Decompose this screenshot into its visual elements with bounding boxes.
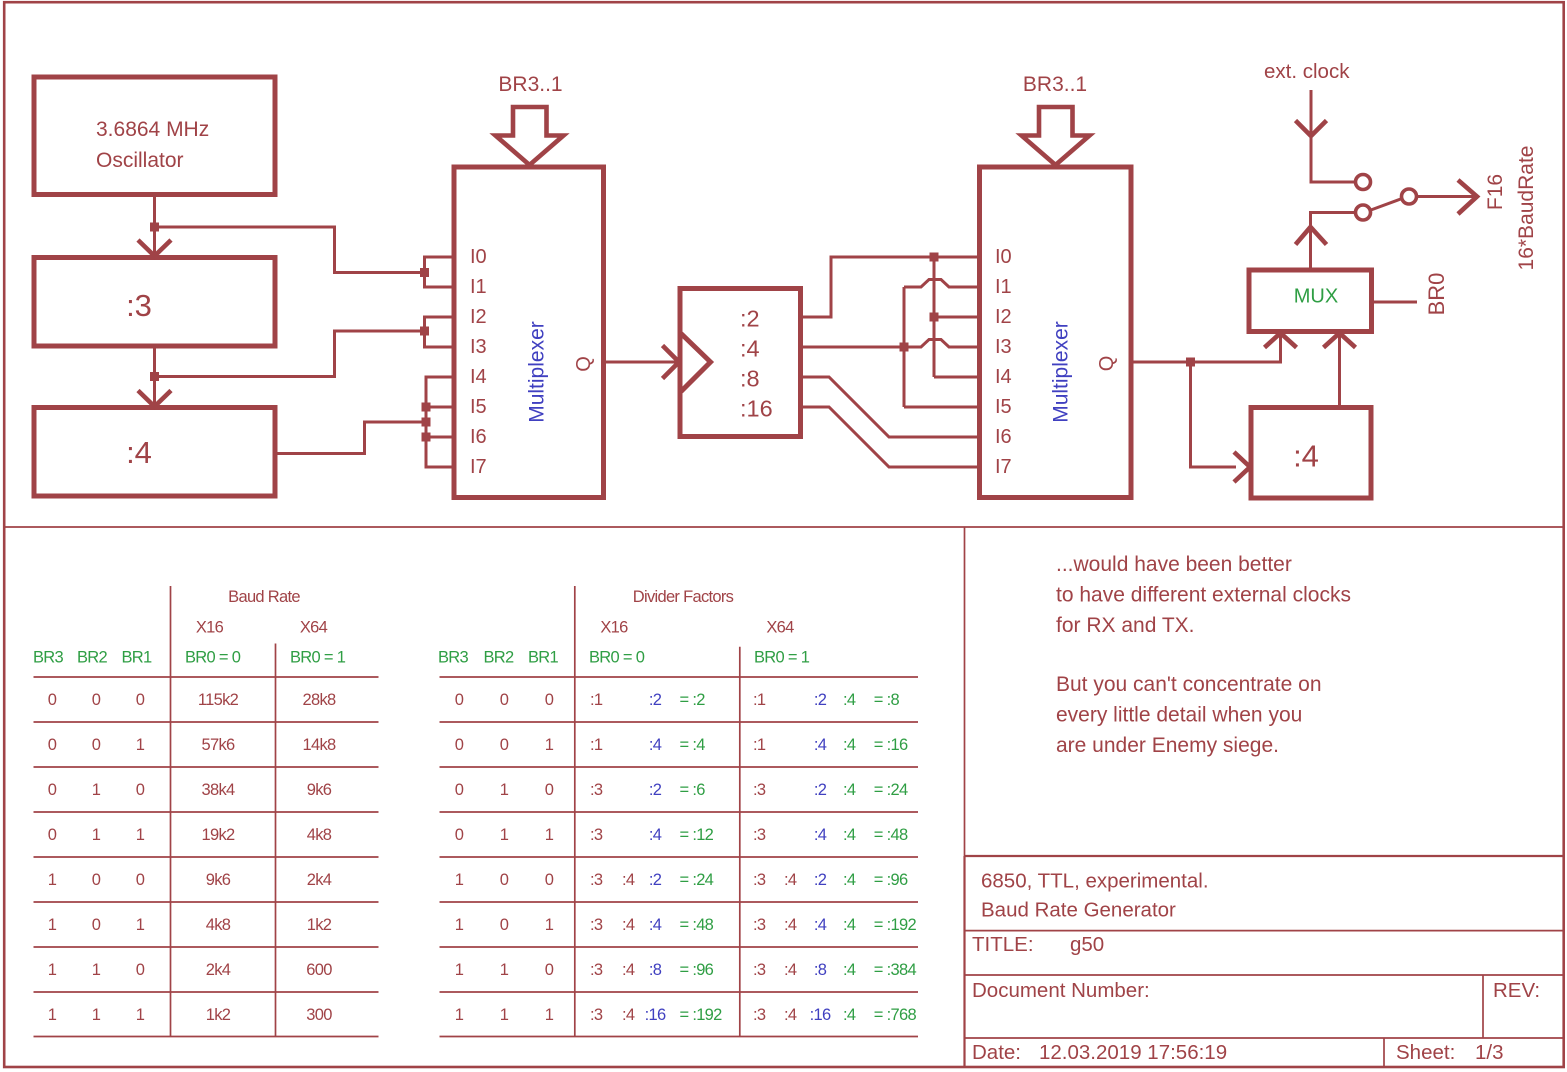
divider block :2 :4 :8 :16: [680, 289, 801, 437]
wire switch common to F16: [1417, 195, 1476, 198]
svg-text::1: :1: [590, 736, 603, 754]
multiplexer U2: [980, 167, 1132, 498]
svg-text::1: :1: [590, 691, 603, 709]
svg-text:0: 0: [92, 691, 101, 709]
svg-text:to have different external clo: to have different external clocks: [1056, 584, 1351, 607]
svg-text::8: :8: [740, 366, 760, 392]
svg-text:= :16: = :16: [874, 736, 908, 754]
switch contact ext. clock: [1356, 175, 1371, 190]
svg-text:0: 0: [455, 781, 464, 799]
svg-text:= :96: = :96: [680, 961, 714, 979]
svg-text::4: :4: [843, 1006, 856, 1024]
svg-text:= :384: = :384: [874, 961, 917, 979]
svg-text:Multiplexer: Multiplexer: [1050, 321, 1073, 423]
svg-text:1: 1: [500, 1006, 509, 1024]
table Divider Factors row 6: [455, 916, 917, 934]
svg-text:1: 1: [500, 781, 509, 799]
svg-text:Sheet:: Sheet:: [1396, 1041, 1455, 1064]
svg-text:1: 1: [92, 826, 101, 844]
svg-text:0: 0: [545, 781, 554, 799]
svg-text:I2: I2: [470, 306, 487, 328]
svg-text:X16: X16: [196, 619, 224, 637]
wire :4 output to U2 I3 with hop: [801, 340, 980, 348]
svg-text:are under Enemy siege.: are under Enemy siege.: [1056, 734, 1279, 757]
svg-text:= :24: = :24: [874, 781, 908, 799]
svg-text:= :24: = :24: [680, 871, 714, 889]
junction I2/I3 bracket: [420, 327, 429, 336]
svg-text::8: :8: [814, 961, 827, 979]
svg-text:F16: F16: [1484, 174, 1507, 210]
svg-text:0: 0: [455, 691, 464, 709]
svg-text:4k8: 4k8: [206, 916, 231, 934]
arrowhead F16 output: [1458, 180, 1477, 214]
svg-text:0: 0: [455, 826, 464, 844]
svg-text::3: :3: [126, 288, 152, 323]
svg-text::4: :4: [740, 336, 760, 362]
svg-text:BR0: BR0: [1424, 273, 1449, 316]
svg-text:BR1: BR1: [528, 649, 559, 667]
wire :8 output to U2 I6: [801, 377, 980, 437]
svg-text:28k8: 28k8: [303, 691, 337, 709]
wire U1 Q output: [604, 361, 678, 364]
svg-text::4: :4: [814, 736, 827, 754]
clock input triangle divider box: [681, 334, 711, 392]
svg-text::4: :4: [843, 691, 856, 709]
wire oscillator to :3: [153, 195, 156, 258]
switch contact MUX output: [1356, 205, 1371, 220]
svg-text::4: :4: [843, 871, 856, 889]
svg-text::3: :3: [753, 826, 766, 844]
svg-text::4: :4: [622, 961, 635, 979]
svg-text::2: :2: [814, 871, 827, 889]
wire :3 to :4: [153, 346, 156, 408]
svg-text:3.6864 MHz: 3.6864 MHz: [96, 118, 209, 141]
svg-text::16: :16: [810, 1006, 831, 1024]
wire U2 pin I5: [904, 406, 980, 409]
svg-text::4: :4: [784, 1006, 797, 1024]
U1 pin bracket I0/I1: [425, 257, 455, 287]
svg-text::2: :2: [649, 781, 662, 799]
svg-text::2: :2: [740, 306, 760, 332]
svg-text:Q: Q: [1096, 356, 1118, 372]
svg-text::3: :3: [753, 781, 766, 799]
wire node A to U1 I0/I1 bracket: [155, 227, 425, 273]
arrowhead into :4 left: [138, 391, 171, 407]
svg-text::4: :4: [814, 916, 827, 934]
svg-text:BR3: BR3: [33, 649, 64, 667]
svg-text:BR2: BR2: [77, 649, 108, 667]
wire :4 output to U1 I4-I7 bracket: [275, 422, 426, 454]
svg-text:0: 0: [500, 736, 509, 754]
svg-text:1: 1: [48, 961, 57, 979]
junction :4 feed bracket: [422, 418, 431, 427]
table Baud Rate row 4: [48, 826, 332, 844]
title block grid: [965, 856, 1564, 1066]
svg-text:1k2: 1k2: [206, 1006, 231, 1024]
svg-text:1: 1: [136, 826, 145, 844]
svg-text:1: 1: [545, 736, 554, 754]
svg-text:2k4: 2k4: [206, 961, 231, 979]
divider block :3: [34, 258, 275, 347]
svg-text:g50: g50: [1070, 933, 1104, 956]
svg-text:I4: I4: [470, 366, 487, 388]
svg-text:12.03.2019 17:56:19: 12.03.2019 17:56:19: [1039, 1041, 1227, 1064]
svg-text:1: 1: [136, 736, 145, 754]
table Baud Rate row 7: [48, 961, 332, 979]
wire node K down to :4 right: [1191, 362, 1237, 467]
wire node B to U1 I2/I3 bracket: [155, 331, 425, 377]
table Divider Factors headers: [438, 588, 810, 667]
junction :4/I3: [900, 343, 909, 352]
svg-text:I7: I7: [995, 456, 1012, 478]
wire ext. clock to switch throw: [1311, 90, 1356, 182]
block arrow BR3..1 into U1: [496, 107, 564, 165]
table Divider Factors grid: [440, 586, 919, 1037]
svg-text:0: 0: [545, 961, 554, 979]
table Divider Factors row 4: [455, 826, 908, 844]
wire U2 Q output to MUX: [1131, 334, 1281, 362]
svg-text:But you can't concentrate on: But you can't concentrate on: [1056, 673, 1322, 696]
svg-text:0: 0: [545, 691, 554, 709]
svg-text:I0: I0: [470, 246, 487, 268]
wire switch lever: [1370, 199, 1403, 211]
svg-text:16*BaudRate: 16*BaudRate: [1515, 146, 1538, 271]
svg-text:Multiplexer: Multiplexer: [526, 321, 549, 423]
svg-text::3: :3: [753, 961, 766, 979]
table Divider Factors row 8: [455, 1006, 917, 1024]
svg-text:BR3..1: BR3..1: [498, 73, 562, 96]
svg-text:BR0 = 1: BR0 = 1: [754, 649, 810, 667]
U1 pin bracket I2/I3: [425, 317, 455, 347]
svg-text:BR0 = 0: BR0 = 0: [185, 649, 241, 667]
svg-text:38k4: 38k4: [202, 781, 236, 799]
svg-text:I5: I5: [470, 396, 487, 418]
svg-text::4: :4: [784, 961, 797, 979]
svg-text:BR0 = 0: BR0 = 0: [589, 649, 645, 667]
wire MUX select BR0: [1372, 301, 1418, 304]
svg-text::2: :2: [814, 691, 827, 709]
svg-text::1: :1: [753, 736, 766, 754]
divider block :4 (left): [34, 408, 275, 497]
svg-text:1: 1: [92, 961, 101, 979]
svg-text:= :768: = :768: [874, 1006, 917, 1024]
table Baud Rate grid: [34, 586, 379, 1037]
svg-text:= :192: = :192: [874, 916, 917, 934]
svg-text::2: :2: [814, 781, 827, 799]
wire :4 right top to MUX: [1338, 334, 1341, 408]
svg-text:0: 0: [48, 826, 57, 844]
svg-text:I6: I6: [470, 426, 487, 448]
U1 pin bracket I4-I7: [426, 377, 454, 467]
svg-text:1/3: 1/3: [1475, 1041, 1504, 1064]
svg-text:X64: X64: [766, 619, 794, 637]
svg-text:BR3: BR3: [438, 649, 469, 667]
junction I6 bracket: [422, 433, 431, 442]
svg-text::4: :4: [843, 961, 856, 979]
svg-text:57k6: 57k6: [202, 736, 236, 754]
svg-text:1: 1: [48, 1006, 57, 1024]
svg-text:I3: I3: [470, 336, 487, 358]
table Baud Rate row 5: [48, 871, 332, 889]
svg-text:BR2: BR2: [484, 649, 515, 667]
svg-text:14k8: 14k8: [303, 736, 337, 754]
svg-text:1: 1: [455, 871, 464, 889]
svg-text:REV:: REV:: [1493, 979, 1540, 1002]
svg-text::3: :3: [590, 781, 603, 799]
svg-text:= :4: = :4: [680, 736, 706, 754]
svg-text:I1: I1: [995, 276, 1012, 298]
svg-text:1: 1: [455, 961, 464, 979]
svg-text::4: :4: [126, 435, 152, 470]
svg-text:Baud Rate Generator: Baud Rate Generator: [981, 899, 1176, 922]
svg-text:I1: I1: [470, 276, 487, 298]
svg-text:600: 600: [306, 961, 332, 979]
table Baud Rate row 2: [48, 736, 336, 754]
svg-text:0: 0: [48, 781, 57, 799]
svg-text:1: 1: [136, 1006, 145, 1024]
svg-text::4: :4: [784, 871, 797, 889]
svg-text:X16: X16: [600, 619, 628, 637]
svg-text::4: :4: [622, 916, 635, 934]
svg-text:0: 0: [48, 691, 57, 709]
svg-text:= :192: = :192: [680, 1006, 723, 1024]
table Divider Factors row 7: [455, 961, 917, 979]
block arrow BR3..1 into U2: [1022, 107, 1090, 165]
svg-text:= :48: = :48: [874, 826, 908, 844]
svg-text:= :12: = :12: [680, 826, 714, 844]
table Divider Factors row 1: [455, 691, 900, 709]
svg-text::4: :4: [622, 871, 635, 889]
svg-text:I3: I3: [995, 336, 1012, 358]
table Divider Factors row 2: [455, 736, 908, 754]
node B :3 output: [150, 372, 159, 381]
svg-text::3: :3: [590, 961, 603, 979]
wire net :4 vertical I1-I5: [903, 287, 906, 407]
svg-text:BR0 = 1: BR0 = 1: [290, 649, 346, 667]
junction :2/I0: [930, 253, 939, 262]
svg-text:every little detail when you: every little detail when you: [1056, 704, 1302, 727]
svg-text::3: :3: [590, 871, 603, 889]
svg-text::2: :2: [649, 871, 662, 889]
wire MUX output to switch pole: [1311, 213, 1356, 271]
svg-text:4k8: 4k8: [307, 826, 332, 844]
svg-text:MUX: MUX: [1294, 286, 1338, 308]
svg-text:Date:: Date:: [972, 1041, 1021, 1064]
arrowhead into :4 right: [1234, 452, 1250, 482]
svg-text::4: :4: [814, 826, 827, 844]
svg-text:= :96: = :96: [874, 871, 908, 889]
svg-text:Q: Q: [573, 356, 595, 372]
table Baud Rate row 3: [48, 781, 332, 799]
svg-text::4: :4: [843, 826, 856, 844]
svg-text::4: :4: [649, 736, 662, 754]
svg-text::3: :3: [590, 916, 603, 934]
svg-text:0: 0: [136, 871, 145, 889]
svg-text:for RX and TX.: for RX and TX.: [1056, 614, 1195, 637]
svg-text:Document Number:: Document Number:: [972, 979, 1150, 1002]
arrowhead into :3: [138, 240, 171, 256]
svg-text:BR1: BR1: [122, 649, 153, 667]
multiplexer U1: [454, 167, 604, 498]
svg-text::4: :4: [1293, 439, 1319, 474]
oscillator block 3.6864 MHz: [34, 77, 275, 195]
svg-text:I2: I2: [995, 306, 1012, 328]
svg-text:0: 0: [136, 781, 145, 799]
table Baud Rate row 8: [48, 1006, 332, 1024]
table Baud Rate row 1: [48, 691, 336, 709]
svg-text:0: 0: [48, 736, 57, 754]
svg-text:= :48: = :48: [680, 916, 714, 934]
svg-text::4: :4: [649, 826, 662, 844]
svg-text:0: 0: [92, 916, 101, 934]
svg-text:I6: I6: [995, 426, 1012, 448]
svg-text::4: :4: [843, 916, 856, 934]
svg-text:1: 1: [500, 826, 509, 844]
divider block :4 (right): [1251, 408, 1371, 499]
U1 pin stub I6: [426, 436, 454, 439]
node A osc output: [150, 223, 159, 232]
svg-text:115k2: 115k2: [198, 691, 239, 709]
node K U2 Q: [1186, 358, 1195, 367]
svg-text:1: 1: [136, 916, 145, 934]
divider line schematic/tables: [4, 526, 1563, 528]
table Baud Rate headers: [33, 588, 346, 667]
arrowhead MUX input right: [1324, 333, 1356, 348]
svg-text:1k2: 1k2: [307, 916, 332, 934]
table Baud Rate row 6: [48, 916, 332, 934]
svg-text:1: 1: [545, 916, 554, 934]
table Divider Factors row 5: [455, 871, 908, 889]
mux block MUX: [1249, 270, 1372, 332]
wire :2 output to U2 I0: [801, 257, 980, 317]
svg-text:0: 0: [92, 871, 101, 889]
svg-text:Oscillator: Oscillator: [96, 149, 184, 172]
svg-text::16: :16: [740, 396, 773, 422]
svg-text:1: 1: [48, 916, 57, 934]
svg-text:300: 300: [306, 1006, 332, 1024]
svg-text:1: 1: [48, 871, 57, 889]
svg-text:TITLE:: TITLE:: [972, 933, 1034, 956]
svg-text:...would have been better: ...would have been better: [1056, 553, 1292, 576]
svg-text::3: :3: [590, 826, 603, 844]
svg-text:Divider Factors: Divider Factors: [633, 588, 734, 606]
svg-text:1: 1: [545, 1006, 554, 1024]
svg-text::16: :16: [645, 1006, 666, 1024]
arrowhead U1 Q into divider: [663, 346, 680, 379]
svg-text::3: :3: [753, 871, 766, 889]
svg-text::3: :3: [753, 1006, 766, 1024]
svg-text:1: 1: [455, 1006, 464, 1024]
svg-text::3: :3: [590, 1006, 603, 1024]
svg-text:1: 1: [545, 826, 554, 844]
svg-text:2k4: 2k4: [307, 871, 332, 889]
svg-text:Baud Rate: Baud Rate: [228, 588, 300, 606]
junction I0/I1 bracket: [420, 268, 429, 277]
svg-text:X64: X64: [300, 619, 328, 637]
svg-text:1: 1: [455, 916, 464, 934]
svg-text:0: 0: [545, 871, 554, 889]
svg-text:0: 0: [136, 691, 145, 709]
svg-text:0: 0: [455, 736, 464, 754]
junction I5 bracket: [422, 403, 431, 412]
svg-text::3: :3: [753, 916, 766, 934]
svg-text:= :6: = :6: [680, 781, 706, 799]
table Divider Factors row 3: [455, 781, 908, 799]
wire U2 pin I2: [934, 316, 980, 319]
svg-text:0: 0: [136, 961, 145, 979]
svg-text:9k6: 9k6: [206, 871, 231, 889]
svg-text:I4: I4: [995, 366, 1012, 388]
svg-text::2: :2: [649, 691, 662, 709]
svg-text:I7: I7: [470, 456, 487, 478]
note text block: [1056, 553, 1351, 757]
svg-text:= :2: = :2: [680, 691, 706, 709]
wire net :2 vertical I0-I4: [933, 257, 936, 377]
svg-text:ext. clock: ext. clock: [1264, 60, 1350, 83]
svg-text::4: :4: [784, 916, 797, 934]
svg-text:I5: I5: [995, 396, 1012, 418]
svg-text::4: :4: [649, 916, 662, 934]
svg-text:0: 0: [500, 871, 509, 889]
svg-text::4: :4: [843, 736, 856, 754]
svg-text::8: :8: [649, 961, 662, 979]
wire U2 pin I1 with hop: [904, 280, 980, 288]
junction I2: [930, 313, 939, 322]
svg-text:0: 0: [500, 916, 509, 934]
svg-text::1: :1: [753, 691, 766, 709]
wire U2 pin I4: [934, 376, 980, 379]
switch common contact: [1402, 189, 1417, 204]
svg-text:1: 1: [500, 961, 509, 979]
wire :16 output to U2 I7: [801, 407, 980, 467]
arrowhead ext. clock down: [1296, 121, 1327, 137]
svg-text:1: 1: [92, 1006, 101, 1024]
svg-text:0: 0: [92, 736, 101, 754]
svg-text:I0: I0: [995, 246, 1012, 268]
svg-text:6850, TTL, experimental.: 6850, TTL, experimental.: [981, 870, 1209, 893]
arrowhead MUX input left: [1265, 333, 1297, 348]
title block text: [972, 870, 1540, 1065]
U1 pin stub I5: [426, 406, 454, 409]
arrowhead MUX output up: [1296, 227, 1327, 245]
svg-text:= :8: = :8: [874, 691, 900, 709]
svg-text:9k6: 9k6: [307, 781, 332, 799]
divider line tables/notes: [964, 527, 966, 856]
svg-text::4: :4: [843, 781, 856, 799]
svg-text::4: :4: [622, 1006, 635, 1024]
svg-text:1: 1: [92, 781, 101, 799]
svg-text:19k2: 19k2: [202, 826, 236, 844]
svg-text:BR3..1: BR3..1: [1023, 73, 1087, 96]
svg-text:0: 0: [500, 691, 509, 709]
